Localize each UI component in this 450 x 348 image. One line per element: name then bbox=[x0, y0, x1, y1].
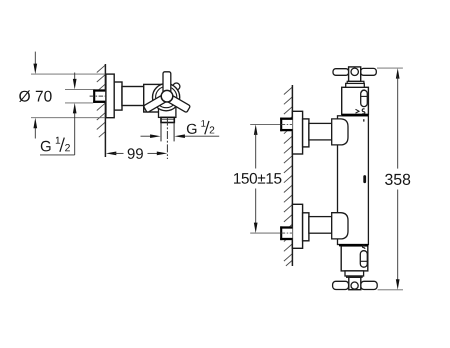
small mark (bottom) bbox=[362, 245, 365, 249]
top handle: hub block bbox=[349, 67, 361, 81]
outlet neck bbox=[159, 105, 176, 117]
extension line 358 bottom bbox=[378, 289, 403, 291]
lower thick separator bbox=[339, 244, 368, 246]
centerline top union bbox=[250, 123, 292, 125]
bottom handle: hub circle bbox=[351, 282, 358, 289]
dimension 99 bbox=[106, 148, 168, 159]
handle inner circle bbox=[156, 87, 177, 108]
top union: ring bbox=[303, 119, 309, 147]
bottom union: ring bbox=[303, 213, 309, 241]
valve body (left view) bbox=[144, 84, 167, 112]
bottom handle: hub block bbox=[349, 277, 361, 289]
top handle: cap step bbox=[346, 83, 365, 87]
wall line (right view) bbox=[291, 85, 293, 266]
label G 1/2 (right) bbox=[187, 120, 214, 134]
dimension arrow O70 bottom bbox=[33, 118, 37, 139]
centerline bottom union bbox=[250, 232, 292, 234]
stop tab on handle bbox=[173, 83, 180, 90]
bottom union: wall nut bbox=[280, 226, 292, 240]
flange ring bbox=[114, 82, 122, 110]
top handle: right bar bbox=[361, 68, 377, 75]
bottom union: body stub dome bbox=[332, 213, 348, 239]
outlet pipe G1/2 bbox=[161, 123, 174, 142]
temperature scale capsule (bottom) bbox=[360, 251, 367, 268]
small tick below separator bbox=[363, 119, 365, 121]
inlet thread (through wall) bbox=[93, 89, 105, 103]
marker pill on right edge bbox=[363, 175, 366, 183]
handle hub bbox=[161, 90, 173, 102]
dimension arrow thread bottom + leader to G1/2 label bbox=[40, 103, 77, 155]
bottom handle: cap step bbox=[345, 271, 364, 276]
connection pipe bbox=[122, 87, 145, 106]
dimension arrow thread top bbox=[73, 73, 77, 90]
top handle: left bar bbox=[333, 69, 349, 76]
extension line thread top bbox=[65, 88, 93, 90]
wall hatching (right view) bbox=[284, 87, 292, 266]
centerline of inlet thread bbox=[90, 95, 106, 97]
wall hatching (left view) bbox=[97, 65, 105, 137]
top handle: hub circle bbox=[351, 68, 358, 75]
extension line top (O70) bbox=[31, 73, 105, 75]
top union: flange bbox=[292, 111, 302, 154]
label G 1/2 (left) bbox=[41, 137, 70, 152]
wall line (left view) bbox=[104, 64, 106, 157]
handle spoke lower-right bbox=[165, 93, 191, 112]
upper thick separator bbox=[342, 114, 369, 116]
small marks > s (top) bbox=[356, 109, 365, 114]
label O70 bbox=[19, 90, 52, 102]
lower section bbox=[341, 246, 368, 271]
G1/2 arrow left (outlet) bbox=[141, 134, 161, 138]
bottom handle: right bar bbox=[361, 281, 377, 289]
upper head section bbox=[342, 87, 369, 114]
G1/2 arrow right (outlet) bbox=[174, 134, 219, 138]
handle spoke up bbox=[163, 72, 171, 97]
handle outer circle bbox=[153, 84, 180, 111]
dimension 358 bbox=[385, 68, 410, 290]
extension line 358 top bbox=[377, 67, 403, 69]
dimension arrow O70 top bbox=[33, 52, 37, 75]
escutcheon flange (left view) bbox=[106, 74, 114, 118]
handle spoke lower-left bbox=[143, 93, 169, 112]
main body tube bbox=[338, 116, 369, 245]
extension line thread bottom bbox=[65, 102, 93, 104]
outlet collar nut bbox=[161, 117, 174, 122]
dimension 150+-15 bbox=[234, 124, 281, 233]
bottom union: pipe bbox=[309, 217, 332, 234]
top union: wall nut bbox=[280, 118, 292, 132]
top union: body stub dome bbox=[332, 119, 348, 145]
outlet centerline / extension bbox=[166, 118, 168, 159]
bottom handle: left bar bbox=[333, 281, 349, 289]
bottom union: flange bbox=[292, 204, 302, 248]
extension line bottom (O70) bbox=[31, 117, 105, 119]
top union: pipe bbox=[309, 123, 332, 139]
temperature scale capsule (top) bbox=[361, 90, 368, 107]
